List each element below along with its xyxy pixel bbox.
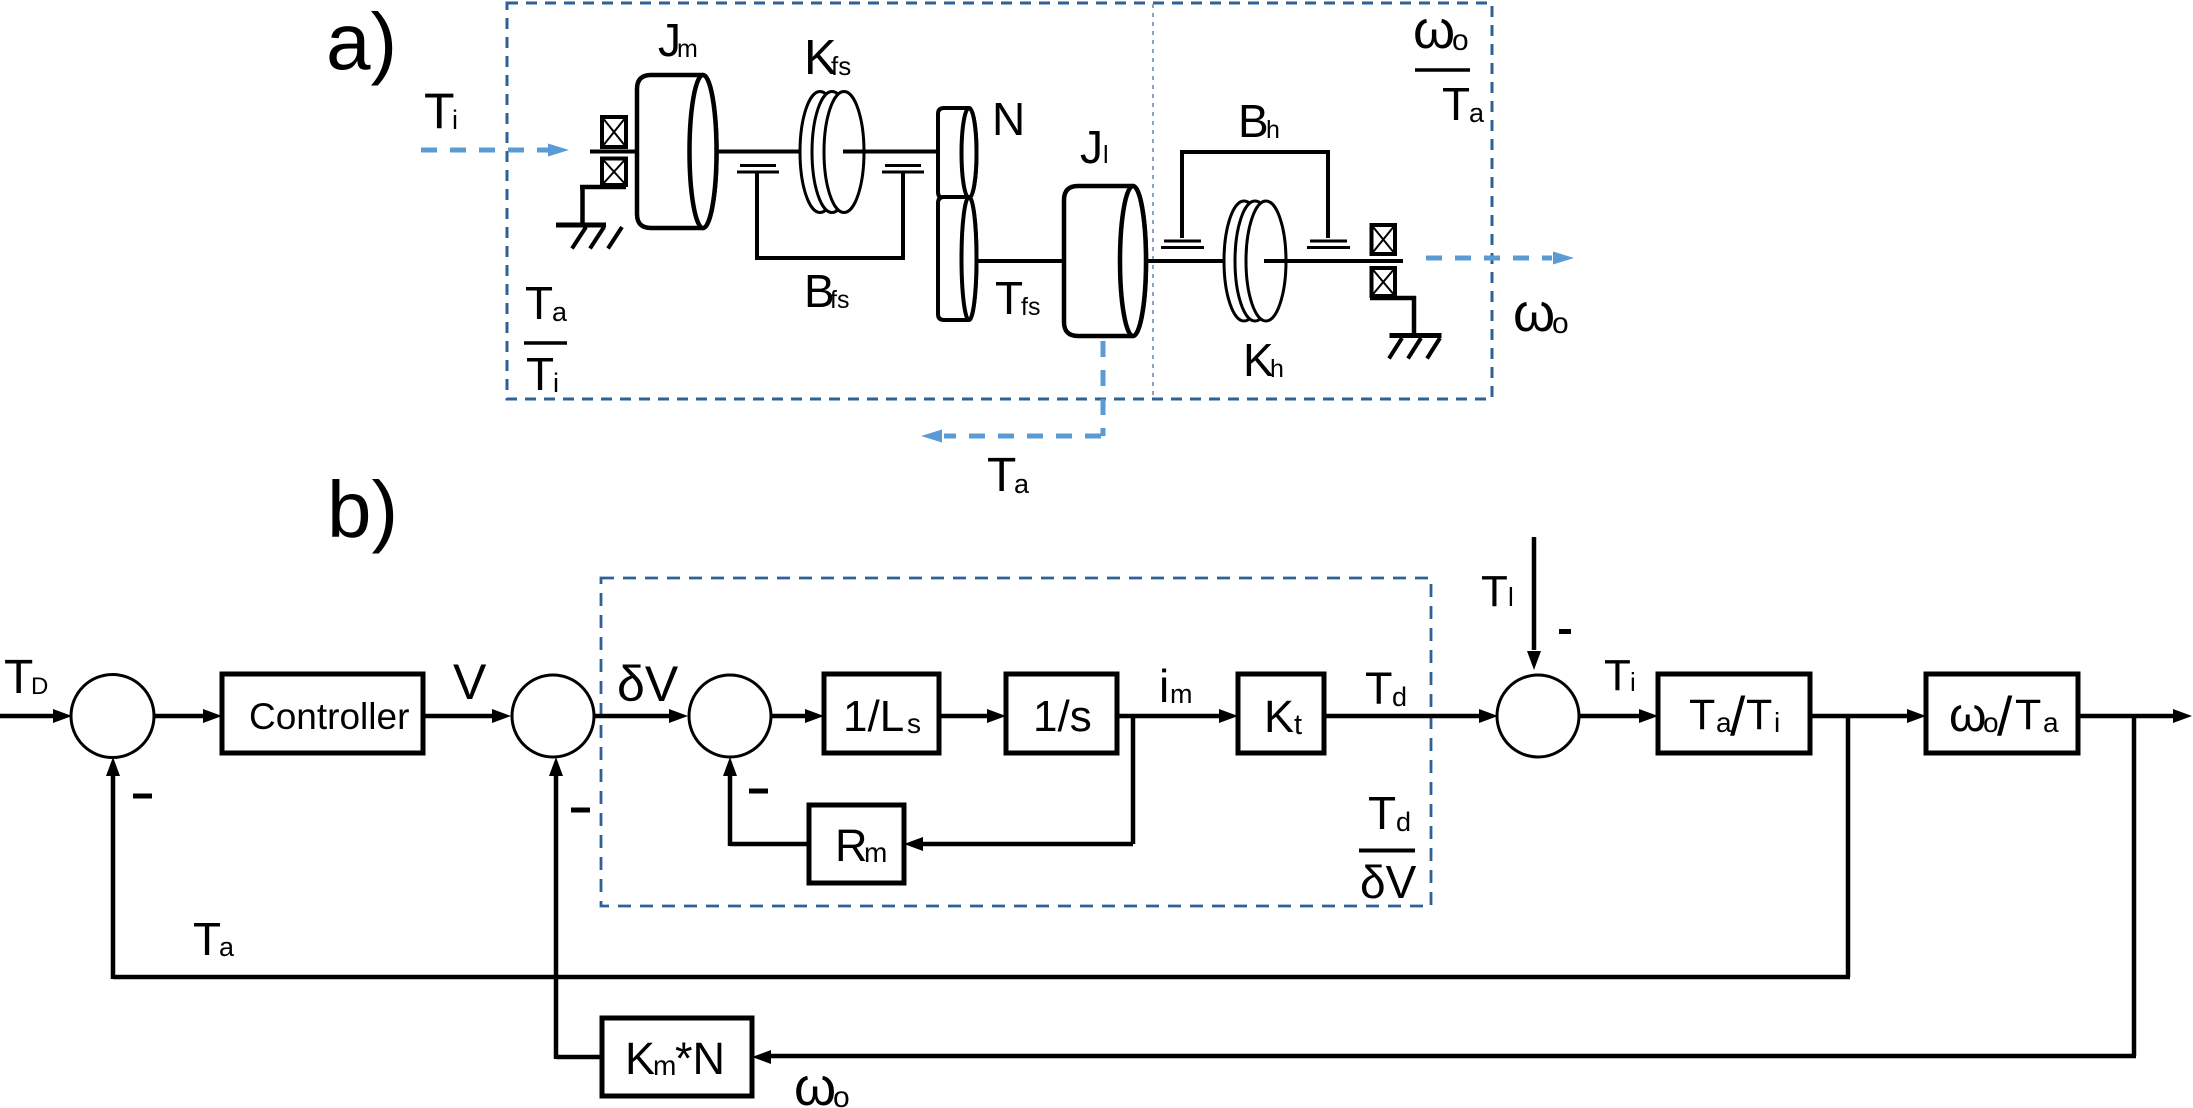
svg-text:T: T xyxy=(1481,567,1508,616)
svg-text:T: T xyxy=(4,651,33,704)
svg-text:fs: fs xyxy=(1021,293,1040,321)
svg-text:a: a xyxy=(1014,469,1030,499)
svg-text:d: d xyxy=(1392,682,1407,712)
svg-text:D: D xyxy=(31,673,48,700)
svg-text:fs: fs xyxy=(831,51,851,81)
svg-text:s: s xyxy=(907,708,921,739)
svg-text:T: T xyxy=(1365,663,1393,714)
svg-text:m: m xyxy=(1170,679,1193,709)
svg-text:o: o xyxy=(1552,307,1569,340)
svg-text:o: o xyxy=(833,1081,850,1108)
svg-text:K: K xyxy=(1264,691,1294,742)
svg-text:*N: *N xyxy=(675,1033,725,1084)
svg-text:t: t xyxy=(1294,709,1302,741)
svg-text:a: a xyxy=(219,932,235,962)
svg-text:1/s: 1/s xyxy=(1033,692,1092,741)
svg-text:T: T xyxy=(987,449,1016,502)
svg-text:T: T xyxy=(2015,691,2041,739)
svg-text:T: T xyxy=(424,83,455,139)
svg-text:1/L: 1/L xyxy=(843,692,904,741)
svg-text:T: T xyxy=(995,272,1023,324)
svg-text:a: a xyxy=(1469,98,1485,128)
svg-text:T: T xyxy=(1368,787,1396,839)
svg-text:ω: ω xyxy=(1413,0,1455,60)
svg-text:T: T xyxy=(1442,78,1470,130)
svg-text:m: m xyxy=(864,837,887,868)
svg-text:δV: δV xyxy=(1360,856,1417,908)
svg-text:T: T xyxy=(526,348,554,400)
svg-text:l: l xyxy=(1508,582,1514,612)
svg-text:d: d xyxy=(1396,807,1411,837)
svg-text:a: a xyxy=(552,297,568,327)
svg-text:m: m xyxy=(653,1050,676,1081)
svg-text:T: T xyxy=(1746,691,1772,739)
svg-text:i: i xyxy=(452,105,458,135)
svg-text:/: / xyxy=(1730,685,1746,747)
svg-text:J: J xyxy=(1080,121,1103,173)
svg-text:V: V xyxy=(453,654,487,710)
svg-text:a: a xyxy=(2043,707,2059,738)
svg-text:ω: ω xyxy=(1513,283,1555,343)
svg-text:R: R xyxy=(835,820,868,871)
svg-text:i: i xyxy=(1630,667,1636,697)
svg-text:a): a) xyxy=(326,0,397,86)
svg-text:i: i xyxy=(1774,707,1780,738)
svg-text:T: T xyxy=(193,913,221,965)
svg-text:B: B xyxy=(1238,95,1269,147)
svg-text:ω: ω xyxy=(794,1057,836,1108)
svg-text:l: l xyxy=(1103,141,1109,169)
svg-text:T: T xyxy=(1604,651,1631,700)
svg-text:h: h xyxy=(1266,116,1280,144)
svg-text:i: i xyxy=(1159,660,1169,712)
svg-text:T: T xyxy=(525,277,553,329)
svg-text:T: T xyxy=(1689,691,1715,739)
svg-text:m: m xyxy=(677,35,698,63)
svg-text:N: N xyxy=(992,93,1025,145)
svg-text:h: h xyxy=(1270,355,1284,383)
svg-text:ω: ω xyxy=(1949,689,1986,742)
svg-text:δV: δV xyxy=(617,656,679,712)
svg-text:K: K xyxy=(625,1033,655,1084)
svg-text:i: i xyxy=(553,368,559,398)
svg-text:Controller: Controller xyxy=(249,696,409,737)
svg-text:fs: fs xyxy=(830,286,849,314)
svg-text:b): b) xyxy=(327,465,398,554)
svg-text:o: o xyxy=(1452,24,1469,57)
svg-text:/: / xyxy=(1997,685,2013,747)
